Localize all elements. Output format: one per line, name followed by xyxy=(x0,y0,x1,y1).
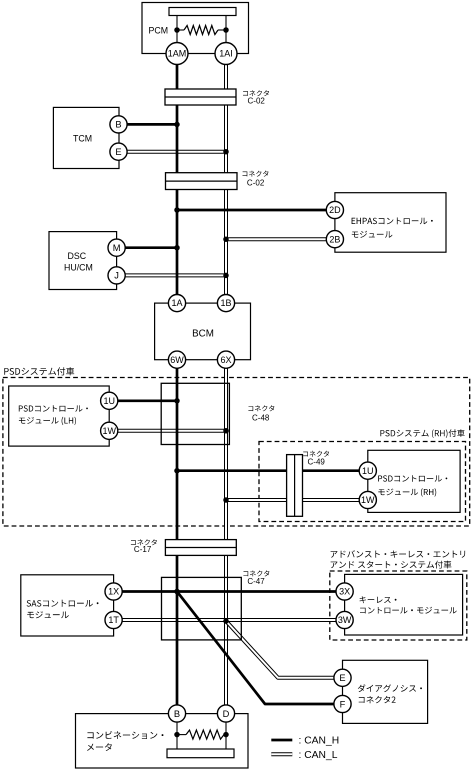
module PCM (box) xyxy=(142,3,249,54)
junction CAN_H at SAS 1X xyxy=(174,589,180,595)
label BCM xyxy=(192,329,214,340)
label meter line2 xyxy=(87,743,112,751)
label advanced keyless line2 xyxy=(331,561,452,569)
terminal J (DSC) xyxy=(108,267,125,284)
terminal B (TCM) xyxy=(110,116,127,133)
connector C-49 (bars) xyxy=(287,455,303,517)
wire CAN_H bus upper (1AM to 1A) xyxy=(176,60,179,298)
wire PSD LH 1W to CAN_L xyxy=(118,429,226,433)
terminal E (diagnosis) xyxy=(334,669,351,686)
label EHPAS line2 xyxy=(352,231,393,238)
module PSD control module LH (box) xyxy=(9,386,110,446)
svg-text:1W: 1W xyxy=(361,495,375,505)
svg-text:E: E xyxy=(339,673,345,683)
svg-text:3X: 3X xyxy=(339,587,350,597)
legend CAN_L text xyxy=(299,750,338,761)
module TCM (box) xyxy=(53,107,119,168)
label TCM xyxy=(73,134,92,144)
svg-text:E: E xyxy=(115,147,121,157)
wire SAS 1T to CAN_L to keyless 3W xyxy=(123,618,345,622)
label keyless line1 xyxy=(360,596,397,603)
terminal 1T (SAS) xyxy=(105,611,122,628)
module keyless control module (box) xyxy=(345,574,463,635)
label DSC xyxy=(68,251,87,261)
module BCM (box) xyxy=(155,303,251,360)
svg-text:2D: 2D xyxy=(329,205,341,215)
wire TCM B to CAN_H xyxy=(128,123,178,126)
svg-text:B: B xyxy=(174,709,180,719)
terminal 1U (PSD LH) xyxy=(101,392,118,409)
junction CAN_L at DSC J xyxy=(223,273,229,279)
label PSD system (RH) equipped xyxy=(380,429,464,438)
svg-text:1W: 1W xyxy=(102,426,116,436)
legend CAN_H sample line xyxy=(271,739,292,742)
label SAS line2 xyxy=(27,611,69,618)
module SAS control module (box) xyxy=(21,575,114,636)
label PSD LH line2 xyxy=(19,417,76,425)
legend CAN_L sample line xyxy=(271,752,292,756)
label PCM xyxy=(149,26,169,36)
svg-text:C-48: C-48 xyxy=(252,414,270,423)
PCM internal wires xyxy=(177,16,226,44)
terminal 1A (BCM) xyxy=(168,295,185,312)
wire PSD LH 1U to CAN_H xyxy=(118,399,177,402)
terminal B (meter) xyxy=(168,705,185,722)
module EHPAS control module (box) xyxy=(335,193,446,253)
svg-text:DSC: DSC xyxy=(68,251,87,261)
terminal 1W (PSD RH) xyxy=(359,491,376,508)
wire CAN_H to PSD RH 1U xyxy=(177,469,368,472)
svg-text:F: F xyxy=(340,699,346,709)
svg-text:1T: 1T xyxy=(108,615,119,625)
module DSC HU/CM (box) xyxy=(49,232,117,290)
svg-text:1U: 1U xyxy=(362,466,374,476)
connector C-17 (bars) xyxy=(165,540,236,556)
wire CAN_H to EHPAS 2D xyxy=(177,209,335,212)
wire CAN_H bus lower (6W to B) xyxy=(176,364,179,709)
svg-text:C-17: C-17 xyxy=(134,545,152,554)
label PSD RH line2 xyxy=(378,488,436,496)
svg-text:C-02: C-02 xyxy=(248,96,266,105)
svg-text:1U: 1U xyxy=(103,396,115,406)
junction CAN_H at PSD LH 1U xyxy=(174,398,180,404)
terminal 2B (EHPAS) xyxy=(326,231,343,248)
svg-text:TCM: TCM xyxy=(73,134,92,144)
label connector C-47 xyxy=(243,570,269,586)
terminal 1AM xyxy=(166,43,188,65)
label SAS line1 xyxy=(27,600,99,607)
label connector C-49 xyxy=(303,451,329,467)
junction CAN_H at TCM B xyxy=(174,122,180,128)
label PSD LH line1 xyxy=(19,405,88,412)
label connector C-02 lower xyxy=(243,171,269,188)
label connector C-02 upper xyxy=(243,90,269,105)
terminal 1AI xyxy=(215,43,237,65)
option box: advanced keyless entry and start system (dashed) xyxy=(330,571,467,640)
wire TCM E to CAN_L xyxy=(128,150,227,154)
wire CAN_L bus upper (1AI to 1B) xyxy=(224,60,228,298)
wire CAN_H branch diagonal to diagnosis F xyxy=(177,592,343,705)
connector C-47 (box) xyxy=(162,577,242,640)
terminal E (TCM) xyxy=(110,143,127,160)
svg-text:HU/CM: HU/CM xyxy=(64,263,93,273)
option box: PSD system (RH) equipped (dashed) xyxy=(259,442,466,522)
svg-text:B: B xyxy=(115,120,121,130)
terminal 1W (PSD LH) xyxy=(101,422,118,439)
svg-text:C-02: C-02 xyxy=(247,178,265,187)
connector C-02 lower (bars) xyxy=(166,173,238,190)
wire CAN_L to PSD RH 1W xyxy=(226,498,368,502)
junction CAN_L at EHPAS 2B xyxy=(223,236,229,242)
PCM internal bus bar xyxy=(169,8,236,16)
label PSD system equipped xyxy=(4,367,74,375)
terminal 3W (keyless) xyxy=(336,611,353,628)
junction CAN_H at PSD RH branch xyxy=(174,468,180,474)
label diagnosis line1 xyxy=(358,684,422,692)
junction CAN_L at TCM E xyxy=(223,149,229,155)
svg-text:C-49: C-49 xyxy=(308,458,326,467)
module diagnosis connector 2 (box) xyxy=(343,660,428,723)
terminal M (DSC) xyxy=(108,239,125,256)
wire CAN_L to EHPAS 2B xyxy=(226,237,335,241)
meter internal bus bar xyxy=(167,749,234,758)
meter internal wires xyxy=(177,722,226,749)
connector C-48 (box) xyxy=(161,383,229,444)
junction CAN_H at DSC M xyxy=(174,245,180,251)
terminating resistor in PCM xyxy=(184,26,218,35)
svg-text:D: D xyxy=(223,709,230,719)
label HU/CM xyxy=(64,263,93,273)
wire DSC M to CAN_H xyxy=(126,246,178,249)
junction CAN_L at PSD LH 1W xyxy=(223,428,229,434)
terminal 1U (PSD RH) xyxy=(359,462,376,479)
svg-text:6W: 6W xyxy=(170,355,184,365)
label meter line1 xyxy=(87,731,163,739)
svg-text:: CAN_L: : CAN_L xyxy=(299,750,338,761)
wire CAN_L bus lower (6X to D) xyxy=(224,364,228,709)
svg-text:1X: 1X xyxy=(108,587,119,597)
junction CAN_L at SAS 1T xyxy=(223,618,229,624)
terminal 1B (BCM) xyxy=(217,295,234,312)
label advanced keyless line1 xyxy=(331,550,466,557)
svg-text:2B: 2B xyxy=(329,234,340,244)
junction CAN_L at PSD RH branch xyxy=(223,497,229,503)
terminal 2D (EHPAS) xyxy=(326,201,343,218)
terminal 6W (BCM) xyxy=(168,351,185,368)
option box: PSD system equipped (dashed) xyxy=(3,378,470,527)
svg-text:J: J xyxy=(114,271,119,281)
connector C-02 upper (bars) xyxy=(165,89,236,105)
label PSD RH line1 xyxy=(378,475,447,482)
wire DSC J to CAN_L xyxy=(126,273,227,277)
svg-text:: CAN_H: : CAN_H xyxy=(299,736,340,747)
junction CAN_H at EHPAS 2D xyxy=(174,207,180,213)
terminal D (meter) xyxy=(217,705,234,722)
svg-text:BCM: BCM xyxy=(192,329,214,340)
terminal 1X (SAS) xyxy=(105,583,122,600)
wire CAN_L branch diagonal to diagnosis E xyxy=(226,621,343,678)
junction dot PCM resistor left xyxy=(174,27,180,33)
svg-text:C-47: C-47 xyxy=(247,577,265,586)
svg-text:6X: 6X xyxy=(220,355,231,365)
label connector C-48 xyxy=(248,405,274,422)
svg-text:PCM: PCM xyxy=(149,26,169,36)
terminating resistor in meter xyxy=(186,730,224,739)
label EHPAS line1 xyxy=(352,218,433,225)
label connector C-17 xyxy=(131,539,157,554)
module combination meter (box) xyxy=(76,714,249,768)
svg-text:1AM: 1AM xyxy=(168,49,187,59)
terminal 6X (BCM) xyxy=(217,351,234,368)
terminal 3X (keyless) xyxy=(336,583,353,600)
wire SAS 1X to CAN_H to keyless 3X xyxy=(123,590,345,593)
svg-text:1B: 1B xyxy=(220,298,231,308)
junction dot meter resistor right xyxy=(223,732,229,738)
label keyless line2 xyxy=(360,607,457,614)
module PSD control module RH (box) xyxy=(368,450,460,512)
svg-text:1A: 1A xyxy=(171,298,182,308)
legend CAN_H text xyxy=(299,736,340,747)
svg-text:1AI: 1AI xyxy=(219,49,233,59)
svg-text:3W: 3W xyxy=(338,615,352,625)
junction dot PCM resistor right xyxy=(223,27,229,33)
junction dot meter resistor left xyxy=(174,732,180,738)
svg-text:M: M xyxy=(113,243,121,253)
label diagnosis line2 xyxy=(359,696,396,703)
terminal F (diagnosis) xyxy=(334,695,351,712)
